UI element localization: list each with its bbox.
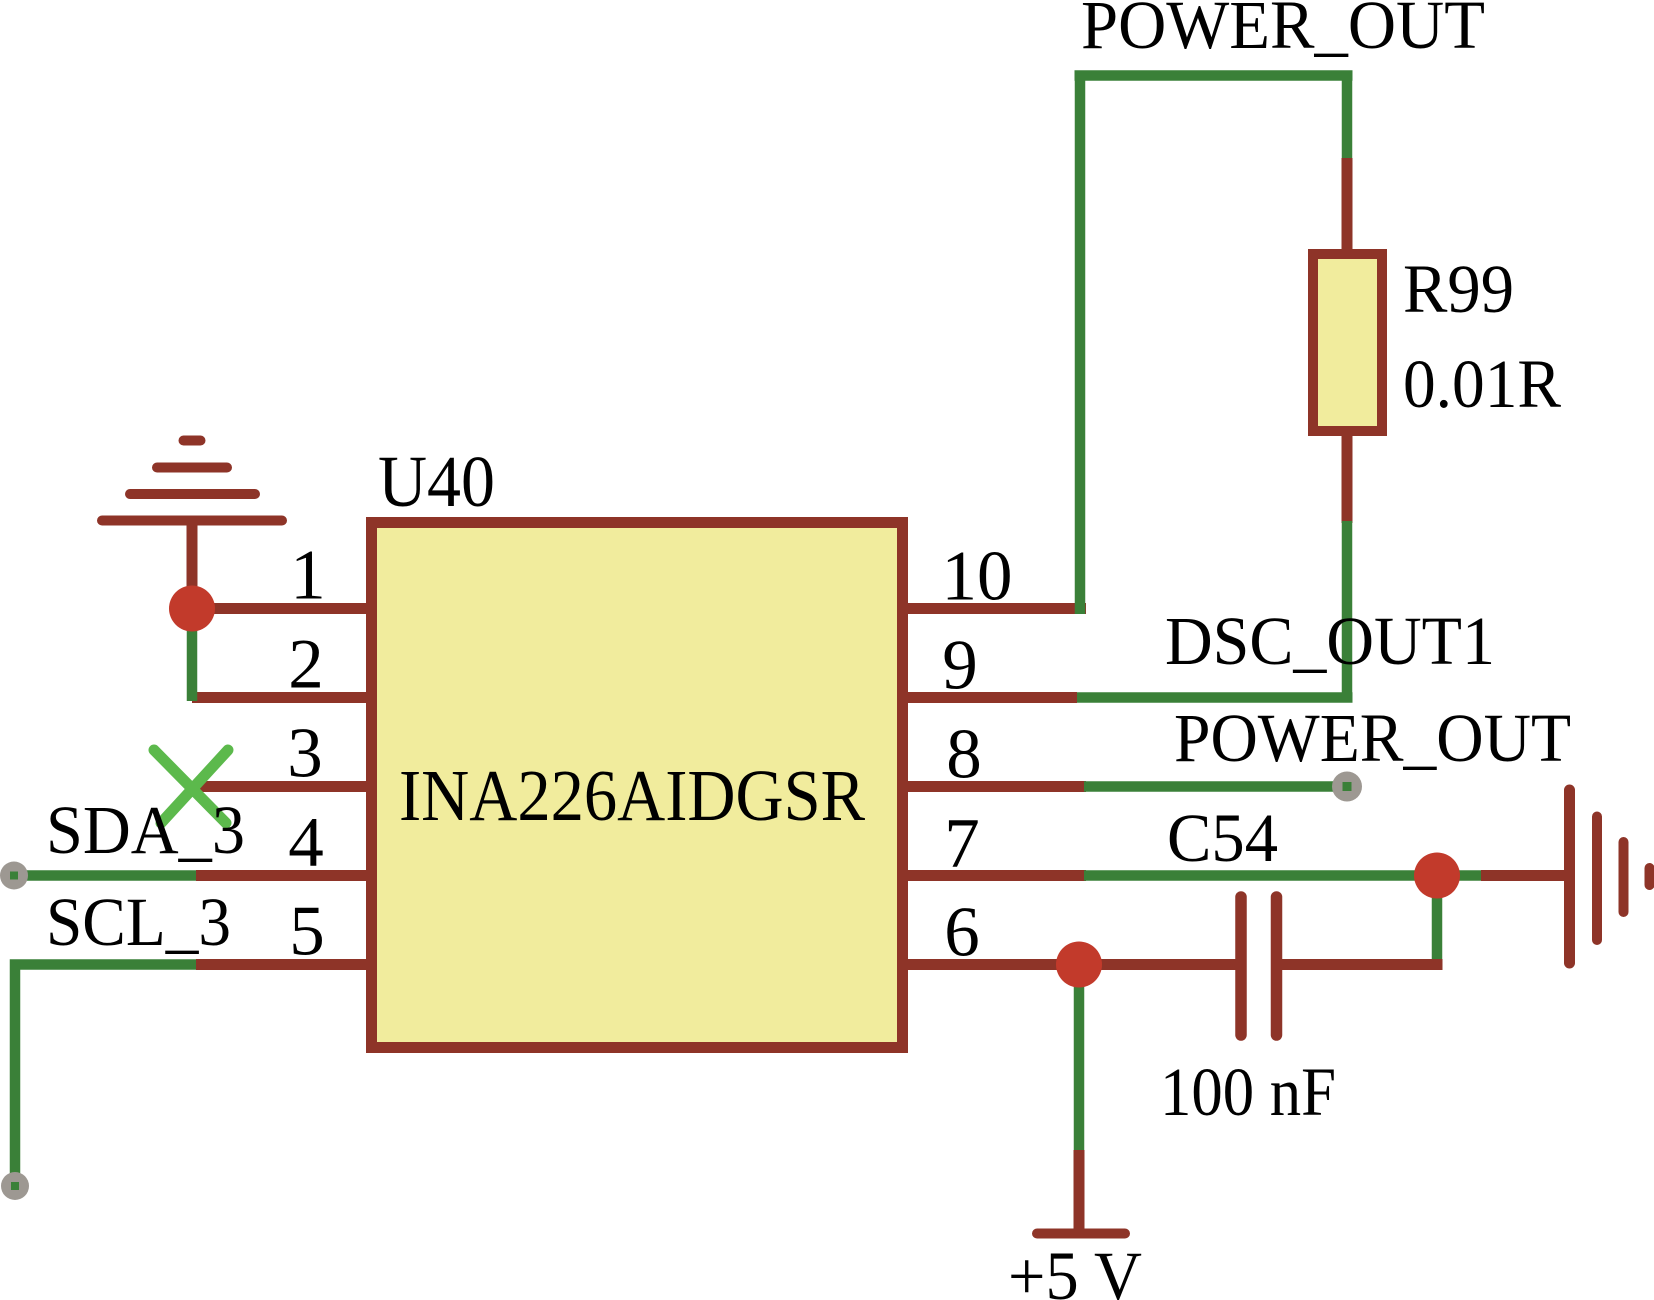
resistor R99 value label 0.01R (1403, 346, 1561, 422)
svg-text:3: 3 (287, 715, 323, 793)
net label POWER_OUT right (1174, 700, 1571, 776)
wire resistor bottom lead (1342, 431, 1353, 523)
svg-text:SDA_3: SDA_3 (46, 792, 245, 868)
pin 9 number (942, 627, 978, 705)
svg-text:10: 10 (942, 538, 1013, 616)
pad SCL_3 (off-sheet connector) (1, 1172, 29, 1200)
pin 9 of U40 (902, 692, 1077, 703)
wire resistor top lead (1342, 158, 1353, 254)
net label SDA_3 (46, 792, 245, 868)
capacitor C54 left plate (1235, 897, 1247, 1035)
wire SCL_3 net (15, 965, 196, 1177)
svg-text:POWER_OUT: POWER_OUT (1081, 0, 1485, 63)
svg-text:4: 4 (288, 804, 324, 882)
wire C54 right plate to ground branch (1272, 959, 1443, 970)
ground symbol left (earth) (102, 441, 282, 605)
net label DSC_OUT1 (1165, 603, 1495, 679)
svg-text:7: 7 (944, 805, 980, 883)
pin 7 number (944, 805, 980, 883)
svg-text:5: 5 (289, 893, 325, 971)
svg-text:+5 V: +5 V (1008, 1238, 1142, 1300)
svg-text:C54: C54 (1167, 800, 1278, 876)
wire +5V net from pin 6 (1074, 965, 1085, 1153)
pin 4 of U40 (196, 870, 372, 881)
svg-text:9: 9 (942, 627, 978, 705)
pin 1 of U40 (190, 603, 372, 614)
IC U40 body (372, 523, 903, 1048)
wire SDA_3 net (14, 870, 196, 881)
pin 10 number (942, 538, 1013, 616)
resistor R99 (1313, 254, 1382, 431)
+5V supply label (1008, 1238, 1142, 1300)
pin 5 of U40 (196, 959, 372, 970)
IC U40 value label INA226AIDGSR (399, 755, 865, 836)
capacitor C54 label (1167, 800, 1278, 876)
resistor R99 refdes label (1403, 251, 1514, 327)
pin 3 of U40 (196, 781, 372, 792)
pin 6 of U40 (902, 959, 1243, 970)
pin 10 of U40 (902, 603, 1086, 614)
junction node pin7/GND (1414, 853, 1460, 899)
svg-text:1: 1 (290, 537, 326, 615)
pin 7 of U40 (902, 870, 1086, 881)
pin 2 of U40 (192, 692, 372, 703)
pin 4 number (288, 804, 324, 882)
svg-text:U40: U40 (378, 441, 495, 522)
pad POWER_OUT (off-sheet connector) (1332, 772, 1362, 802)
wire +5V supply lead (1074, 1150, 1085, 1230)
pin 2 number (288, 626, 324, 704)
+5V supply symbol bar (1037, 1229, 1125, 1239)
capacitor C54 value label 100 nF (1160, 1054, 1336, 1130)
pin 3 number (287, 715, 323, 793)
svg-text:R99: R99 (1403, 251, 1514, 327)
svg-text:INA226AIDGSR: INA226AIDGSR (399, 755, 865, 836)
net label POWER_OUT top (1081, 0, 1485, 63)
svg-text:8: 8 (946, 716, 982, 794)
pad SDA_3 (off-sheet connector) (0, 862, 28, 890)
net label SCL_3 (46, 884, 231, 960)
no-connect cross on pin 3 (154, 750, 228, 823)
wire POWER_OUT net from pin 10 (1075, 76, 1353, 615)
pin 1 number (290, 537, 326, 615)
svg-text:0.01R: 0.01R (1403, 346, 1561, 422)
junction node pin1/GND (169, 586, 215, 632)
pin 8 of U40 (902, 781, 1086, 792)
pin 5 number (289, 893, 325, 971)
junction node pin6/+5V (1056, 942, 1102, 988)
wire GND net vertical pin1 to pin2 (187, 609, 198, 702)
svg-text:SCL_3: SCL_3 (46, 884, 231, 960)
svg-text:DSC_OUT1: DSC_OUT1 (1165, 603, 1495, 679)
svg-text:6: 6 (944, 894, 980, 972)
wire GND net from pin 7 (1084, 870, 1483, 881)
wire POWER_OUT net from pin 8 (1084, 781, 1347, 792)
wire GND to right ground symbol (1481, 870, 1570, 881)
svg-text:POWER_OUT: POWER_OUT (1174, 700, 1571, 776)
svg-text:100 nF: 100 nF (1160, 1054, 1336, 1130)
capacitor C54 right plate (1271, 897, 1283, 1035)
pin 8 number (946, 716, 982, 794)
ground symbol right (earth, rotated) (1570, 790, 1650, 963)
pin 6 number (944, 894, 980, 972)
svg-text:2: 2 (288, 626, 324, 704)
wire C54 right branch to pin7 node (1432, 876, 1443, 962)
wire DSC_OUT1 net to pin 9 (1077, 521, 1353, 698)
IC U40 refdes label U40 (378, 441, 495, 522)
